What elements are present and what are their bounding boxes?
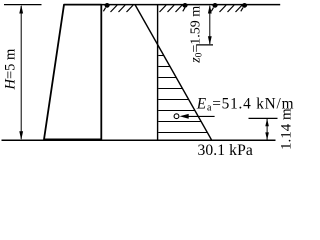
Ea arrowhead — [180, 114, 189, 119]
Ea application point circle — [174, 114, 179, 119]
ground symbol dot 4 — [242, 3, 247, 8]
z0 dimension line — [209, 6, 211, 44]
z0 dimension arrow up — [208, 5, 212, 14]
H dimension arrow up — [19, 5, 23, 14]
H dimension arrow down — [19, 131, 23, 140]
1.14 m dimension arrow down — [265, 132, 269, 140]
pressure zero axis — [157, 5, 159, 141]
z0 dimension bottom tick — [196, 44, 213, 46]
svg-text:30.1 kPa: 30.1 kPa — [198, 142, 253, 156]
ground symbol hatches 3 — [220, 5, 243, 12]
z0 dimension arrow down — [208, 36, 212, 45]
ground symbol hatches 2 — [160, 5, 183, 12]
dimension tick top-left — [4, 4, 42, 6]
ground symbol dot 1 — [105, 3, 110, 8]
ground base line — [2, 139, 276, 141]
Ea arrow line — [186, 115, 215, 117]
retaining wall — [44, 5, 101, 140]
ground symbol dot 2 — [183, 3, 188, 8]
1.14 m dimension arrow up — [265, 119, 269, 127]
1.14 m dimension top tick — [249, 117, 278, 119]
hatch lines of pressure triangle — [158, 56, 207, 133]
ground surface line right of wall — [102, 4, 281, 6]
1.14 m dimension line — [266, 119, 268, 140]
ground symbol hatch tail 4 — [241, 8, 243, 12]
H dimension line — [20, 6, 22, 139]
svg-text:H=5 m: H=5 m — [3, 48, 19, 91]
ground symbol hatches 1 — [111, 5, 134, 12]
pressure diagonal line — [135, 5, 212, 141]
svg-text:1.14 m: 1.14 m — [278, 108, 294, 150]
ground symbol dot 3 — [213, 3, 218, 8]
